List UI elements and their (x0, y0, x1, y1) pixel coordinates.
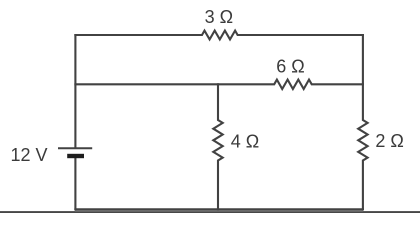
svg-text:2 Ω: 2 Ω (375, 131, 403, 151)
svg-text:4 Ω: 4 Ω (231, 131, 259, 151)
svg-text:6 Ω: 6 Ω (276, 57, 304, 77)
svg-text:12 V: 12 V (10, 145, 47, 165)
svg-text:3 Ω: 3 Ω (205, 7, 233, 27)
